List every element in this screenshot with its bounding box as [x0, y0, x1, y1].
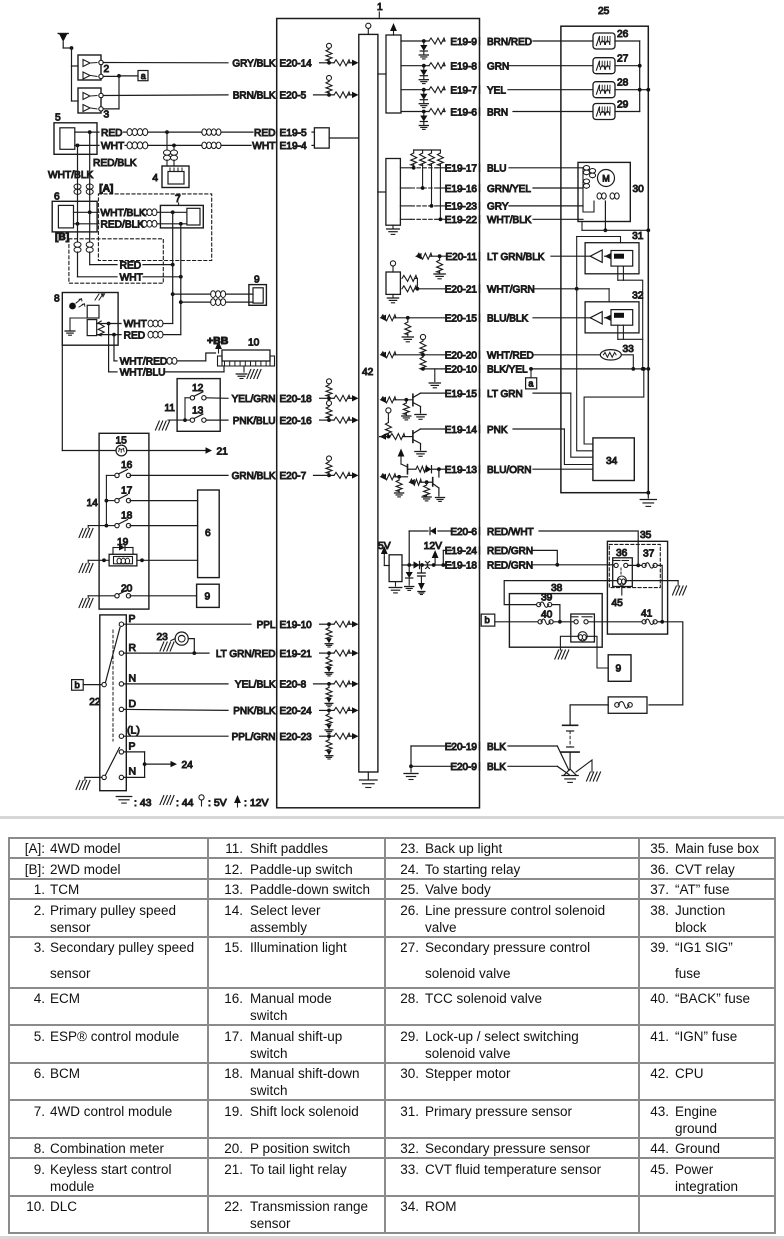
wire back up light to ground — [171, 639, 175, 641]
svg-text:27: 27 — [617, 54, 629, 65]
primary pulley speed sensor 2 — [78, 55, 101, 80]
wire sensors to node a — [103, 75, 119, 77]
stepper motor 30 — [578, 162, 630, 221]
svg-text:29: 29 — [617, 100, 629, 111]
svg-text:RED: RED — [120, 260, 142, 271]
wire BRN to solenoid valve 29 — [513, 111, 593, 113]
wire WHT/BLK between 6 and 7 — [74, 211, 100, 213]
wire PNK to ROM — [513, 428, 564, 430]
sensor interface block (E20-11/E20-21) — [386, 272, 400, 294]
DLC ground — [243, 366, 245, 372]
wire E20-10 — [421, 367, 425, 371]
wire twisted pair to keyless module 9 — [173, 293, 211, 295]
svg-text:E19-6: E19-6 — [450, 107, 477, 118]
pull-up rail for stepper outputs — [414, 149, 441, 151]
svg-text:E20-21: E20-21 — [445, 285, 478, 296]
svg-text:LT GRN/RED: LT GRN/RED — [216, 649, 276, 660]
wire CPU to driver block — [378, 73, 386, 75]
svg-text:R: R — [129, 642, 137, 654]
twisted pair coil — [127, 129, 148, 133]
svg-text:[B]: [B] — [55, 232, 69, 243]
svg-text:E20-18: E20-18 — [280, 394, 313, 405]
svg-text:PPL: PPL — [257, 620, 276, 631]
svg-text:2: 2 — [104, 64, 110, 75]
svg-text:E19-17: E19-17 — [445, 164, 478, 175]
5V supply rail for sensors — [533, 288, 609, 290]
wire BLU/ORN to ROM — [533, 468, 593, 470]
resistor pull network E20-23 — [327, 734, 331, 738]
svg-text:WHT/BLU: WHT/BLU — [120, 368, 166, 379]
sensor 31 arrow — [605, 253, 612, 259]
svg-text:E19-23: E19-23 — [445, 202, 478, 213]
svg-text:E20-9: E20-9 — [450, 762, 477, 773]
resistor pull network E20-24 — [327, 709, 331, 713]
back-up relay in junction block — [571, 614, 595, 642]
svg-text:: 5V: : 5V — [208, 797, 227, 809]
wire to +BB supply — [206, 353, 216, 361]
ROM box 34 — [593, 438, 634, 481]
resistor pull network E20-7 — [327, 474, 331, 478]
svg-text:4: 4 — [152, 173, 158, 184]
stepper motor symbol M — [598, 170, 615, 187]
wire sensor supply branch to ROM — [577, 289, 593, 451]
svg-text:9: 9 — [205, 592, 211, 603]
stepper driver ground — [392, 225, 394, 228]
keyless module box 9 (lever) — [197, 584, 220, 607]
CVT relay dashed box 36 — [609, 544, 660, 587]
svg-text:GRN: GRN — [487, 62, 509, 73]
svg-text:34: 34 — [606, 456, 618, 467]
transistor driver Q for E19-14 — [387, 413, 389, 419]
stepper output wire y=167.8 — [400, 167, 411, 169]
resistor pull network E20-14 — [327, 61, 331, 65]
legend ground 44 — [160, 796, 164, 805]
svg-text:GRN/YEL: GRN/YEL — [487, 184, 531, 195]
svg-text:9: 9 — [254, 275, 260, 286]
svg-text:WHT/BLK: WHT/BLK — [48, 170, 93, 181]
wire R to E19-21 — [124, 652, 209, 654]
svg-text:19: 19 — [117, 537, 129, 548]
svg-text:11: 11 — [164, 403, 175, 414]
svg-text:20: 20 — [121, 584, 133, 595]
svg-text:10: 10 — [248, 338, 260, 349]
5V pull-up E20-16 — [328, 406, 330, 407]
transistor pair for E19-13 — [400, 457, 402, 461]
svg-text:BLK: BLK — [487, 742, 506, 753]
svg-text:BLU/BLK: BLU/BLK — [487, 314, 528, 325]
wire WHT/RED drop — [113, 335, 115, 361]
wire solenoid 28 output — [615, 89, 640, 91]
wire stepper input y=167.8 — [509, 167, 583, 169]
svg-text:9: 9 — [616, 664, 622, 675]
pressure sensor 32 — [585, 302, 639, 333]
wire E20-19/E20-9 to ground — [411, 745, 452, 747]
svg-text:D: D — [129, 698, 137, 710]
svg-text:PNK: PNK — [487, 425, 508, 436]
regulator ground — [395, 582, 397, 586]
svg-text:31: 31 — [632, 231, 644, 242]
main fuse box 35 — [607, 541, 667, 634]
wire switch 20 ground — [88, 595, 115, 597]
svg-text:WHT: WHT — [124, 319, 147, 330]
relay 45 power integration lead — [621, 587, 623, 596]
svg-text:23: 23 — [157, 632, 169, 643]
battery — [563, 724, 578, 726]
stepper coils — [587, 166, 590, 175]
regulator output node — [402, 564, 452, 566]
ground E19-21 pull-down — [326, 667, 332, 672]
resistor pull network E19-21 — [327, 651, 331, 655]
horizontal rule separator — [0, 816, 784, 820]
divider to E20-10 row — [422, 355, 424, 357]
svg-text:GRN/BLK: GRN/BLK — [232, 471, 276, 482]
sensor block ground — [392, 294, 394, 297]
body ground 44 — [576, 760, 592, 772]
svg-text:WHT: WHT — [101, 141, 124, 152]
wire RED from meter — [97, 334, 121, 336]
svg-text:45: 45 — [612, 598, 624, 609]
selector lever — [102, 682, 106, 686]
svg-text:[A]: [A] — [99, 184, 113, 195]
svg-text:E19-14: E19-14 — [445, 425, 478, 436]
wire sensor 3 to E20-5 — [103, 94, 228, 97]
svg-text:E20-11: E20-11 — [445, 252, 477, 263]
svg-text:E19-5: E19-5 — [280, 128, 308, 139]
ground E20-24 pull-down — [326, 724, 332, 729]
svg-text:32: 32 — [632, 290, 644, 301]
stepper common to ground bus — [604, 228, 608, 232]
svg-text:YEL: YEL — [487, 86, 506, 97]
wire BLK/YEL ground bus — [533, 368, 648, 370]
driver output wire y=111.5 — [401, 111, 429, 113]
wire interface box to CPU — [329, 137, 359, 139]
wire WHT 2WD — [78, 276, 118, 278]
sensor 32 lower pins — [617, 325, 619, 339]
CPU bar 42 — [359, 34, 378, 772]
CVT relay 36 — [613, 558, 633, 587]
driver output wire y=65.7 — [401, 65, 429, 67]
5V pull-up E20-5 — [328, 80, 330, 81]
zener clamp — [423, 112, 425, 116]
wire illumination light to tail light relay 21 — [127, 450, 208, 452]
wire WHT from meter — [97, 323, 121, 325]
svg-text:BLK: BLK — [487, 762, 506, 773]
svg-text:E20-16: E20-16 — [280, 416, 313, 427]
CVT fluid temperature sensor 33 — [600, 350, 621, 360]
svg-text:BLU/ORN: BLU/ORN — [487, 465, 531, 476]
pull-up resistor — [439, 150, 441, 153]
wire BLK E20-9 to ground node — [508, 765, 557, 767]
wire E19-24 to 12V node — [443, 549, 452, 551]
legend ground 43 — [116, 796, 131, 798]
wire relay 38 contact to IGN fuse 41 — [588, 621, 644, 623]
solenoid driver block (E19-9..E19-6) — [386, 35, 401, 113]
transistor driver Q for E19-15 — [380, 397, 387, 403]
wire fuse 41 to fusible link — [649, 622, 683, 705]
wire fusible link to battery — [570, 705, 608, 725]
svg-text:WHT/RED: WHT/RED — [120, 357, 168, 368]
svg-text:E19-8: E19-8 — [450, 62, 477, 73]
svg-text:RED/GRN: RED/GRN — [487, 546, 533, 557]
wire LT GRN to ROM — [533, 392, 571, 394]
wire LT GRN/BLK into sensor 31 — [551, 255, 591, 257]
wire solenoid 19 left to ground — [88, 559, 109, 561]
solenoid valve 29 — [593, 104, 615, 120]
wire fuse 37 to IGN fuse 41 — [657, 565, 662, 621]
5V supply at CPU top — [367, 28, 369, 34]
svg-text:LT GRN/BLK: LT GRN/BLK — [487, 252, 545, 263]
5V supply to sensor block — [392, 266, 394, 272]
meter connector blocks — [87, 305, 99, 318]
meter indicator lamp — [69, 303, 76, 310]
5V pull-up E20-18 — [328, 384, 330, 385]
svg-text:a: a — [528, 379, 533, 389]
wire RED/BLK drop — [88, 130, 92, 134]
wire sensor 33 to ground bus — [621, 355, 633, 369]
svg-text:E19-22: E19-22 — [445, 215, 478, 226]
svg-text:1: 1 — [377, 2, 383, 13]
node a box (left) — [119, 75, 138, 77]
5V pull-up E20-7 — [328, 461, 330, 462]
svg-text:E20-14: E20-14 — [280, 59, 313, 70]
relay 36 coil ground wire — [626, 580, 678, 582]
svg-text:RED: RED — [254, 128, 276, 139]
svg-text:E20-6: E20-6 — [450, 527, 477, 538]
svg-text:E19-9: E19-9 — [450, 37, 477, 48]
svg-text:BLU: BLU — [487, 164, 506, 175]
stepper output wire y=205.9 — [400, 205, 411, 207]
twisted pair coil 2 — [202, 129, 221, 132]
wire D to E20-24 — [124, 709, 228, 710]
wire L to E20-23 — [124, 735, 228, 737]
wire switch 20 to keyless module — [130, 595, 197, 597]
svg-text:E20-24: E20-24 — [280, 706, 313, 717]
svg-text:3: 3 — [104, 110, 110, 121]
svg-text:30: 30 — [633, 184, 645, 195]
solenoid valve 28 — [593, 82, 615, 98]
wire RED/WHT to relay junction — [539, 531, 638, 565]
svg-text:E19-24: E19-24 — [445, 546, 478, 557]
svg-text:b: b — [75, 680, 80, 691]
svg-text:RED/BLK: RED/BLK — [101, 220, 145, 231]
ground E20-8 pull-down — [326, 698, 332, 703]
relay 38 coil to keyless module 9 — [587, 636, 608, 668]
junction block 38 — [509, 594, 602, 648]
wire GRN to solenoid valve 27 — [508, 65, 593, 67]
svg-text:41: 41 — [641, 609, 653, 620]
wire back up light to R — [188, 639, 194, 654]
resistor pull network E20-5 — [327, 93, 331, 97]
solenoid output bus — [639, 41, 641, 112]
svg-text:GRY/BLK: GRY/BLK — [232, 59, 275, 70]
wire paddle-down to E20-16 — [206, 419, 228, 421]
svg-text:E19-18: E19-18 — [445, 561, 478, 572]
svg-text:RED/WHT: RED/WHT — [487, 527, 534, 538]
svg-text:5: 5 — [55, 113, 61, 124]
svg-text:E20-20: E20-20 — [445, 351, 478, 362]
wire WHT/BLU drop — [108, 324, 110, 372]
svg-text:26: 26 — [617, 29, 629, 40]
svg-text:LT GRN: LT GRN — [487, 389, 523, 400]
svg-text:P: P — [129, 741, 136, 753]
svg-text:: 43: : 43 — [134, 797, 152, 809]
driver output wire y=41 — [401, 40, 429, 42]
legend 5V — [201, 800, 203, 806]
svg-text:E19-7: E19-7 — [450, 86, 477, 97]
node b (left) — [72, 680, 84, 691]
fusible link box — [608, 697, 647, 713]
svg-text:BRN/BLK: BRN/BLK — [233, 91, 276, 102]
wire solenoid 29 output — [615, 111, 640, 113]
svg-text:E19-21: E19-21 — [280, 649, 313, 660]
svg-text:38: 38 — [551, 583, 563, 594]
sensor ground drop — [618, 280, 643, 369]
svg-text:a: a — [141, 71, 146, 81]
stepper driver block (E19-17..E19-22) — [386, 159, 401, 226]
wire switch 18 to BCM — [130, 525, 198, 527]
svg-text:: 44: : 44 — [176, 797, 194, 809]
resistor pull network E20-16 — [327, 418, 331, 422]
svg-text:37: 37 — [643, 549, 655, 560]
svg-text:YEL/BLK: YEL/BLK — [235, 680, 276, 691]
sensor 32 arrow — [605, 315, 612, 321]
svg-text:N: N — [129, 673, 137, 685]
svg-text:42: 42 — [362, 367, 374, 378]
wire solenoid 26 output — [615, 40, 640, 42]
resistor pull network E19-10 — [327, 622, 331, 626]
wire WHT from ESP — [75, 144, 99, 146]
svg-text:E20-15: E20-15 — [445, 314, 478, 325]
stepper output wire y=219.3 — [400, 218, 411, 220]
svg-text:E20-7: E20-7 — [280, 471, 307, 482]
wire RED 2WD — [90, 264, 117, 266]
svg-text:RED/BLK: RED/BLK — [93, 158, 137, 169]
stepper inner wiring — [583, 168, 594, 212]
svg-text:BLK/YEL: BLK/YEL — [487, 365, 528, 376]
BCM box 6 (lever) — [198, 490, 220, 578]
svg-text:GRY: GRY — [487, 202, 509, 213]
svg-text:33: 33 — [623, 344, 635, 355]
resistor pull network E20-8 — [327, 682, 331, 686]
ground E20-23 pull-down — [326, 750, 332, 755]
legend 12V — [237, 803, 239, 807]
svg-text:E20-10: E20-10 — [445, 365, 478, 376]
5V pull-up E20-20 — [422, 352, 424, 355]
pull-up resistor — [413, 150, 415, 153]
svg-text:28: 28 — [617, 78, 629, 89]
svg-text:: 12V: : 12V — [244, 797, 269, 809]
wire RED/BLK between 6 and 7 — [74, 223, 100, 225]
pressure sensor 31 — [585, 243, 639, 274]
TCM module box 1 — [277, 19, 480, 808]
svg-text:E20-23: E20-23 — [280, 732, 313, 743]
main ground (engine ground 43) — [564, 769, 576, 775]
wire E20-6 diode — [408, 531, 410, 565]
wire stepper input y=188 — [533, 187, 583, 189]
zener clamp — [423, 66, 425, 70]
sensor 31 lower pins — [617, 266, 619, 280]
wire E20-15 to CPU — [380, 315, 387, 321]
wire supply to sensors — [63, 47, 71, 49]
CPU ground — [367, 772, 369, 779]
svg-text:E20-5: E20-5 — [280, 91, 307, 102]
svg-text:35: 35 — [640, 530, 652, 541]
driver output wire y=89.7 — [401, 89, 429, 91]
svg-text:P: P — [129, 613, 136, 625]
wire YEL to solenoid valve 28 — [508, 89, 593, 91]
wire P/N to starting relay 24 — [124, 751, 145, 753]
svg-text:PPL/GRN: PPL/GRN — [232, 732, 276, 743]
svg-text:12V: 12V — [424, 541, 442, 552]
wire b to BACK fuse 40 — [495, 621, 540, 623]
wire N to E20-8 — [124, 683, 228, 685]
svg-text:WHT/BLK: WHT/BLK — [101, 208, 146, 219]
capacitor to ground — [420, 565, 422, 573]
wire stepper input y=219.3 — [533, 218, 583, 220]
svg-text:7: 7 — [175, 194, 181, 205]
svg-text:21: 21 — [217, 446, 229, 457]
wire lower lever to ground — [85, 776, 102, 778]
wire RED from ESP — [75, 131, 99, 133]
keyless start module box 9 — [608, 655, 631, 682]
svg-text:WHT/RED: WHT/RED — [487, 351, 534, 362]
wire RED/GRN E19-24 join — [533, 550, 557, 564]
svg-text:RED/GRN: RED/GRN — [487, 561, 533, 572]
pull-up resistor — [431, 150, 433, 153]
svg-text:E19-4: E19-4 — [280, 141, 308, 152]
pull-up resistor — [422, 150, 424, 153]
svg-text:BRN/RED: BRN/RED — [487, 37, 532, 48]
valve body box 25 — [561, 26, 648, 493]
interface box for E19-5/E19-4 — [314, 128, 329, 148]
ground E19-10 pull-down — [326, 638, 332, 643]
ground for switch bus — [88, 525, 106, 527]
regulator box — [389, 555, 402, 582]
dashed box 2WD model — [69, 239, 163, 283]
zener clamp — [423, 90, 425, 94]
svg-text:E19-10: E19-10 — [280, 620, 313, 631]
wire ground-bus branch to ROM — [584, 369, 644, 444]
wire fuse 39 to node — [552, 605, 560, 622]
dashed box 4WD model — [98, 194, 211, 261]
wire CPU to stepper driver — [378, 191, 386, 193]
secondary pulley speed sensor 3 — [78, 88, 101, 113]
svg-text:b: b — [485, 615, 490, 626]
resistor pull network E20-18 — [327, 396, 331, 400]
svg-text:WHT: WHT — [252, 141, 275, 152]
wire P to E19-10 — [124, 623, 251, 625]
valve body ground — [646, 491, 650, 495]
svg-text:E20-8: E20-8 — [280, 680, 307, 691]
wire paddles common to ground — [185, 397, 190, 399]
svg-text:PNK/BLK: PNK/BLK — [233, 706, 276, 717]
wire switch 16 to E20-7 — [130, 474, 228, 476]
svg-text:RED: RED — [101, 128, 123, 139]
wire sensor block to E20-21 — [402, 275, 417, 281]
wire 4WD module drops — [172, 212, 174, 323]
wire BLU/BLK into sensor 32 — [533, 317, 591, 319]
meter internal ground — [69, 318, 71, 330]
wire sensor 2 to E20-14 — [103, 62, 228, 64]
svg-text:8: 8 — [54, 294, 60, 305]
svg-text:RED: RED — [124, 330, 146, 341]
svg-text:N: N — [129, 766, 137, 778]
svg-text:E19-15: E19-15 — [445, 389, 478, 400]
wire WHT/BLK drop — [76, 144, 80, 148]
5V pull-up E20-14 — [328, 48, 330, 49]
wire paddle-up to E20-18 — [206, 397, 228, 400]
wire solenoid 19 to BCM — [137, 559, 198, 561]
